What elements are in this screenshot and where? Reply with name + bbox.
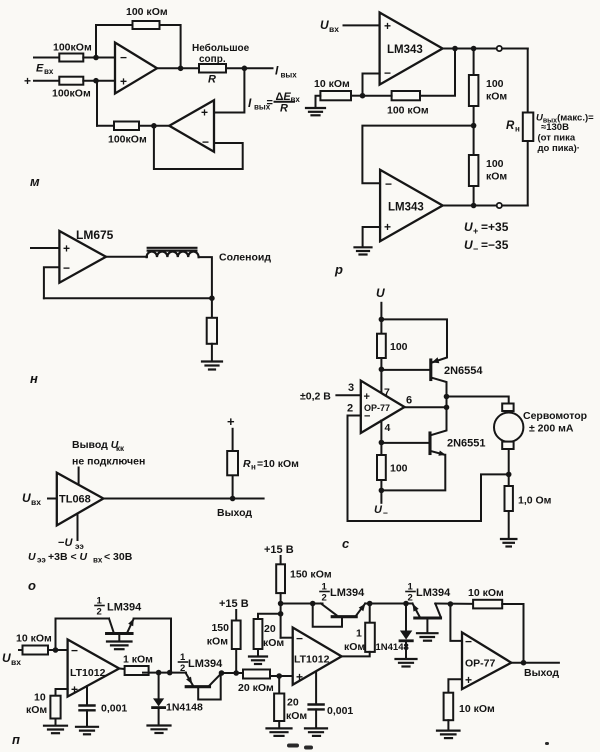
wire row Q9 to Q10	[365, 603, 412, 605]
label U+ = +35	[464, 220, 509, 236]
capacitor C2 0,001	[309, 671, 354, 728]
svg-text:100: 100	[390, 341, 408, 353]
svg-text:U: U	[320, 18, 329, 32]
svg-text:1N4148: 1N4148	[166, 702, 203, 714]
svg-text:100 кОм: 100 кОм	[387, 105, 429, 117]
diode D2 1N4148	[376, 604, 413, 659]
resistor R2 100kOm (noninverting input)	[52, 77, 91, 100]
resistor 150 kOm pullup1	[207, 621, 241, 650]
svg-text:+: +	[227, 414, 235, 429]
svg-text:R: R	[208, 74, 216, 86]
ground 12	[417, 633, 438, 641]
inductor L1 solenoid coil	[147, 248, 199, 257]
op-amp U9 LT1012	[293, 628, 342, 685]
svg-text:м: м	[30, 174, 40, 189]
resistor 1,0 Om	[505, 486, 552, 511]
resistor R load	[207, 318, 217, 344]
svg-text:R: R	[280, 103, 288, 115]
svg-text:=10 кОм: =10 кОм	[257, 458, 299, 470]
op-amp U10 OP-77	[462, 632, 511, 689]
label 1/2 LM394 q8	[180, 652, 223, 674]
svg-text:100: 100	[390, 463, 408, 475]
wire feedback down to output	[160, 25, 181, 68]
transistor Q10 1/2 LM394	[413, 604, 474, 619]
arrow Q6 emitter (outward)	[438, 451, 445, 456]
wire bottom output row	[443, 205, 528, 207]
fraction bar	[275, 101, 295, 103]
resistor 10 kOm feedback	[468, 587, 504, 608]
svg-text:Сервомотор: Сервомотор	[523, 410, 587, 422]
wire node AD to OP77 inverting	[450, 604, 462, 641]
wire chain down from node G	[473, 49, 475, 76]
label Vyvod Ukk ne podklyuchen	[72, 439, 145, 468]
svg-text:н: н	[515, 125, 520, 134]
wire to ground	[447, 720, 449, 730]
svg-text:I: I	[275, 64, 279, 78]
svg-text:+: +	[24, 74, 31, 88]
resistor 20 kOm to ground	[274, 694, 307, 723]
op-amp U4 LM343	[380, 170, 443, 241]
resistor 10kOm input	[16, 633, 52, 655]
wire to mid node	[473, 106, 475, 155]
node U (feedback tap)	[167, 670, 173, 676]
arrow Q9 emitter outward	[359, 604, 366, 612]
wire inverting input down	[363, 74, 380, 96]
wire Q6 base	[381, 442, 428, 444]
ground 6	[44, 726, 67, 734]
svg-text:±0,2 В: ±0,2 В	[300, 391, 331, 403]
svg-text:−U: −U	[58, 537, 73, 549]
wire solenoid to vertical	[199, 257, 212, 318]
svg-text:10 кОм: 10 кОм	[468, 587, 504, 599]
svg-text:2: 2	[180, 663, 185, 674]
label 1/2 LM394	[97, 596, 143, 618]
label condition Uee+3V < Uvx < 30V	[28, 551, 133, 565]
wire pin2 input	[348, 415, 361, 417]
ground 11	[396, 659, 417, 667]
wire U stem	[380, 303, 382, 334]
svg-text:U: U	[28, 551, 36, 563]
svg-text:вх: вх	[93, 556, 103, 565]
node Q (U- node)	[379, 488, 385, 494]
svg-text:10 кОм: 10 кОм	[16, 633, 52, 645]
label U_vx 2	[2, 651, 21, 667]
svg-text:U: U	[22, 491, 31, 505]
label U_vyx maks 130V	[536, 113, 594, 155]
svg-text:1N4148: 1N4148	[376, 642, 409, 653]
svg-text:LM675: LM675	[76, 228, 114, 242]
svg-text:0,001: 0,001	[327, 705, 353, 717]
wire op-amp output	[157, 67, 199, 69]
node output U1	[178, 66, 184, 72]
wire Q6 emitter down to U- rail	[381, 451, 445, 491]
svg-text:LT1012: LT1012	[70, 667, 106, 679]
wire Q10 base to ground	[426, 618, 428, 633]
svg-text:+: +	[364, 391, 370, 403]
wire output pin6	[405, 406, 447, 408]
label Rn=10 kOm	[243, 458, 299, 472]
node H (midpoint)	[471, 123, 477, 129]
wire feedback down to output row	[170, 619, 172, 673]
svg-text:кОм: кОм	[486, 171, 507, 183]
svg-text:+: +	[71, 683, 78, 697]
wire U2 output to R5	[139, 125, 169, 127]
wire R2 to op-amp	[83, 80, 115, 82]
svg-text:сопр.: сопр.	[199, 54, 226, 65]
wire 150k2 down to row	[280, 593, 282, 638]
wire chain to bottom output	[473, 186, 475, 206]
svg-text:+: +	[120, 75, 127, 89]
wire R to I_out	[226, 67, 273, 69]
svg-text:−: −	[383, 508, 388, 518]
svg-text:+15 В: +15 В	[264, 544, 294, 556]
wire 1kOm to U9 output	[342, 652, 370, 657]
wire mid feedback to U4 inverting	[362, 126, 473, 184]
svg-text:LM394: LM394	[416, 587, 451, 599]
ground 4	[501, 539, 516, 547]
svg-text:10 кОм: 10 кОм	[314, 78, 350, 90]
svg-text:−: −	[465, 635, 472, 649]
svg-text:10 кОм: 10 кОм	[459, 703, 495, 715]
svg-text:U: U	[464, 220, 473, 234]
svg-text:+: +	[384, 220, 391, 234]
arrow Q10 emitter outward	[413, 604, 419, 612]
label Servomotor	[523, 410, 587, 435]
svg-text:2: 2	[322, 593, 327, 604]
svg-text:−: −	[71, 644, 78, 658]
wire output row	[443, 48, 528, 50]
node J	[209, 295, 215, 301]
capacitor C1 0,001	[80, 686, 128, 726]
wire Q5 base	[381, 369, 429, 371]
wire + input down	[448, 679, 462, 693]
wire U8 + input	[56, 689, 68, 696]
svg-text:LM394: LM394	[188, 658, 223, 670]
node AC (diode2 tap)	[403, 601, 409, 607]
wire 20k to ground	[257, 649, 259, 656]
resistor Rn 10kOm	[227, 451, 238, 475]
ground 2	[355, 247, 372, 254]
wire U8 output	[119, 669, 129, 670]
fraction bar q9	[320, 591, 329, 593]
svg-text:кОм: кОм	[344, 641, 365, 653]
svg-text:+15 В: +15 В	[219, 598, 249, 610]
svg-text:U: U	[376, 286, 385, 300]
wire resistor to node E	[351, 95, 363, 97]
svg-text:3: 3	[348, 382, 354, 394]
wire to ground	[508, 511, 510, 539]
label E_vx	[36, 63, 54, 77]
ground 7	[76, 727, 98, 735]
wire node X down	[278, 676, 280, 694]
svg-text:(от пика: (от пика	[538, 133, 576, 144]
svg-text:I: I	[248, 96, 252, 110]
svg-text:100кОм: 100кОм	[52, 88, 91, 100]
svg-text:=: =	[267, 97, 273, 109]
ground 13	[437, 731, 460, 739]
wire input stage1	[19, 649, 23, 651]
callout line to op-amp top	[78, 468, 80, 485]
wire + input	[31, 247, 59, 249]
resistor Rn load	[523, 113, 534, 142]
svg-text:+: +	[465, 673, 472, 687]
wire pin4 vertical	[380, 421, 382, 456]
formula I_vyx = dE/R	[248, 91, 300, 115]
wire feedback to output	[420, 49, 455, 96]
resistor R1 100kOm (inverting input)	[53, 42, 92, 62]
terminal circle top	[497, 46, 502, 51]
node Y (row left)	[278, 601, 284, 607]
wire +15V stem 2	[280, 556, 282, 564]
svg-text:ээ: ээ	[37, 556, 46, 565]
node C output	[242, 66, 248, 72]
svg-text:вх: вх	[329, 24, 339, 34]
svg-text:< 30В: < 30В	[104, 551, 133, 563]
wire to ground	[55, 719, 57, 726]
svg-text:+: +	[201, 106, 208, 120]
wire feedback up and over	[56, 619, 110, 651]
svg-text:6: 6	[406, 395, 412, 407]
resistor 10kOm to ground	[26, 692, 61, 719]
terminal circle bottom	[497, 203, 502, 208]
svg-text:+3В < U: +3В < U	[48, 551, 88, 563]
svg-text:LT1012: LT1012	[294, 654, 330, 666]
svg-text:кОм: кОм	[207, 636, 228, 648]
wire negative supply pin	[77, 514, 79, 541]
svg-text:U: U	[464, 238, 473, 252]
wire pin3 input	[336, 394, 360, 396]
svg-text:E: E	[36, 63, 44, 75]
ground 3	[202, 362, 222, 370]
svg-text:LM394: LM394	[107, 602, 142, 614]
wire node B down	[96, 81, 98, 126]
svg-text:вх: вх	[31, 497, 41, 507]
resistor 100 lower	[377, 455, 408, 480]
svg-text:о: о	[28, 578, 36, 593]
node B (noninverting input)	[93, 78, 99, 84]
node K output	[230, 496, 236, 502]
svg-text:−: −	[120, 51, 127, 65]
wire R5 to left vertical	[97, 125, 114, 127]
node F	[452, 46, 458, 52]
resistor 20 kOm series	[238, 670, 274, 695]
wire U2 inverting feedback loop	[154, 126, 243, 169]
wire to motor	[447, 397, 509, 404]
svg-text:p: p	[334, 262, 343, 277]
svg-text:2: 2	[97, 607, 102, 618]
svg-text:20 кОм: 20 кОм	[238, 682, 274, 694]
wire row to 150k node	[222, 672, 244, 674]
label U-	[374, 504, 388, 518]
wire Q5 collector down	[431, 378, 447, 436]
stray scan marks	[287, 742, 549, 750]
wire to U8 inverting	[48, 649, 68, 651]
svg-text:100кОм: 100кОм	[108, 134, 147, 146]
svg-text:−: −	[385, 177, 392, 191]
node AE (output)	[521, 660, 527, 666]
op-amp U2 (pointing left)	[169, 100, 214, 152]
node O (motor tap)	[444, 394, 450, 400]
svg-text:20: 20	[287, 697, 299, 709]
transistor Q5 2N6554 base bar	[429, 360, 432, 380]
svg-text:150: 150	[211, 622, 229, 634]
wire node C down to U2 + input	[214, 68, 244, 112]
wire to ground	[278, 721, 280, 728]
node A (inverting input)	[93, 55, 99, 61]
wire input to +	[344, 24, 380, 26]
ground 5	[107, 642, 132, 650]
svg-text:U: U	[2, 651, 11, 665]
resistor 1 kOm	[123, 654, 153, 676]
svg-text:LM343: LM343	[388, 202, 424, 214]
svg-text:150 кОм: 150 кОм	[290, 569, 332, 581]
svg-text:=−35: =−35	[481, 238, 509, 252]
svg-text:TL068: TL068	[59, 494, 91, 506]
transistor Q8 1/2 LM394 (diode connected)	[186, 673, 222, 700]
svg-text:100: 100	[486, 158, 504, 170]
resistor 100 kOm feedback	[387, 91, 429, 117]
svg-text:до пика)·: до пика)·	[538, 143, 580, 154]
svg-text:100 кОм: 100 кОм	[126, 6, 168, 18]
svg-text:1 кОм: 1 кОм	[123, 654, 153, 666]
wire 1kOm vertical down	[369, 604, 371, 623]
op-amp U3 LM343	[380, 13, 443, 85]
svg-text:н: н	[30, 371, 38, 386]
svg-text:Небольшое: Небольшое	[192, 42, 250, 54]
label U_vx input	[22, 491, 41, 507]
arrow Q8 emitter into bar	[186, 677, 192, 685]
ground 10	[249, 657, 267, 665]
node X	[276, 673, 282, 679]
svg-text:вх: вх	[11, 657, 21, 667]
fraction bar q10	[406, 591, 415, 593]
wire + input to ground	[363, 227, 381, 246]
svg-text:кОм: кОм	[286, 710, 307, 722]
svg-text:кк: кк	[116, 444, 125, 453]
resistor 150 kOm pullup2	[276, 564, 332, 593]
node V	[219, 670, 225, 676]
svg-text:вых: вых	[281, 71, 298, 80]
fraction bar q7	[95, 605, 104, 607]
svg-text:−: −	[296, 632, 303, 646]
node P (pin4 / Q6 base)	[379, 440, 385, 446]
svg-text:=+35: =+35	[481, 220, 509, 234]
wire output	[511, 662, 559, 664]
wire feedback right and down	[502, 604, 523, 663]
svg-text:100: 100	[486, 78, 504, 90]
wire resistor to ground	[211, 344, 213, 361]
op-amp U1	[115, 43, 157, 94]
wire feedback up from node A	[96, 25, 133, 58]
svg-text:20: 20	[264, 623, 276, 635]
svg-text:≈130В: ≈130В	[541, 122, 569, 133]
wire output to solenoid	[106, 256, 147, 258]
wire node K up to Rn	[232, 475, 234, 498]
fraction bar q8	[179, 661, 188, 663]
svg-text:2N6554: 2N6554	[444, 365, 483, 377]
svg-text:R: R	[243, 458, 251, 470]
label U_vx	[320, 18, 339, 34]
svg-text:ээ: ээ	[75, 542, 84, 551]
motor M1 servomotor	[494, 404, 523, 450]
wire Rn up to plus	[232, 429, 234, 451]
label I_vyx	[275, 64, 297, 80]
svg-text:кОм: кОм	[263, 637, 284, 649]
wire right rail bottom	[527, 141, 529, 206]
svg-text:0,001: 0,001	[101, 703, 127, 715]
node I	[471, 203, 477, 209]
wire resistor to U- node	[380, 480, 382, 503]
svg-text:2: 2	[408, 593, 413, 604]
diode D1 1N4148	[153, 673, 203, 725]
node AA (Q9 base node)	[310, 601, 316, 607]
wire 1kOm to node row	[143, 672, 186, 674]
wire feedback pin2 loop	[348, 416, 509, 522]
svg-text:+: +	[296, 670, 303, 684]
svg-text:+: +	[473, 226, 478, 236]
svg-text:LM343: LM343	[387, 44, 423, 56]
wire motor down	[508, 449, 510, 486]
node M (pin7 / Q5 base)	[379, 367, 385, 373]
wire node E to feedback resistor	[363, 95, 392, 97]
node G	[471, 46, 477, 52]
svg-text:100кОм: 100кОм	[53, 42, 92, 54]
wire divider to 20k	[258, 614, 281, 619]
resistor R small sense	[199, 64, 226, 86]
svg-text:10: 10	[34, 692, 46, 704]
label 1/2 LM394 q9	[322, 582, 366, 604]
svg-text:Соленоид: Соленоид	[219, 252, 271, 264]
svg-text:Выход: Выход	[524, 667, 559, 679]
node L	[379, 317, 385, 323]
wire node row Y to Q9	[281, 603, 323, 605]
svg-text:OP-77: OP-77	[364, 403, 390, 413]
svg-text:не подключен: не подключен	[72, 456, 145, 468]
arrow Q7 emitter outward	[128, 618, 134, 626]
wire 150k to node W	[235, 649, 237, 673]
svg-text:2N6551: 2N6551	[447, 438, 486, 450]
svg-text:вх: вх	[44, 67, 54, 76]
svg-text:± 200 мА: ± 200 мА	[529, 423, 574, 435]
wire inverting input E	[34, 57, 59, 59]
wire resistor to ground	[316, 96, 321, 108]
transistor Q6 2N6551 base bar	[428, 433, 431, 454]
resistor 100 kOm chain bottom	[469, 155, 508, 186]
svg-text:кОм: кОм	[486, 91, 507, 103]
wire U rail to Q5 emitter	[381, 319, 447, 362]
transistor Q9 1/2 LM394 (diode connected)	[313, 604, 366, 627]
svg-text:4: 4	[385, 422, 391, 434]
svg-text:н: н	[251, 463, 256, 472]
resistor 100 upper	[377, 334, 408, 358]
node W (150k supply node)	[233, 670, 239, 676]
svg-text:1,0 Ом: 1,0 Ом	[518, 495, 552, 507]
node S	[53, 647, 59, 653]
node AB (1kOm top)	[367, 601, 373, 607]
svg-text:−: −	[473, 244, 478, 254]
wire U9 inverting input	[281, 637, 293, 639]
svg-text:с: с	[342, 536, 350, 551]
ground 14	[305, 728, 327, 736]
wire 20k to U9 + input	[270, 675, 293, 677]
node N (output junction)	[444, 405, 450, 411]
svg-text:Вывод U: Вывод U	[72, 439, 119, 451]
op-amp U6 TL068	[57, 473, 104, 526]
op-amp U7 OP-77	[361, 381, 405, 433]
node R (feedback tap)	[506, 472, 512, 478]
label U- = -35	[464, 238, 509, 254]
ground 1	[306, 108, 325, 115]
